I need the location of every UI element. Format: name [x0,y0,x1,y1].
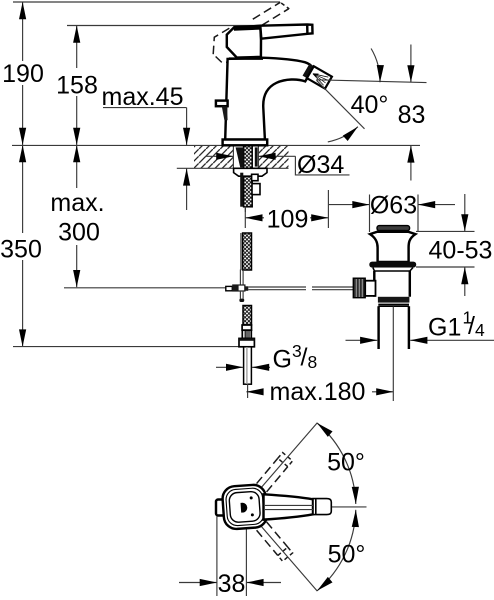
max.300 bottom reference line to hose clamp [64,287,226,289]
max.45 arrow up to counter bottom [186,168,188,210]
pop-up rod knob at rear of body [216,101,228,107]
top view dashed lever lower 50deg [257,522,293,561]
faucet handle knob [227,26,261,58]
top view radial line lower [262,527,318,592]
109 right extension line [327,190,329,228]
countertop bottom surface line [177,167,289,169]
40 deg lower arc with arrow [328,127,358,142]
clamp block white window [239,286,245,291]
rings below threaded band [378,303,409,305]
svg-text:40-53: 40-53 [429,237,493,265]
clamp block dark part [232,284,245,291]
40-53 bottom reference line [416,266,475,268]
dark bar right side of hole [255,147,258,166]
dimension 38 arrows [179,582,217,584]
clamp left nut [226,286,233,290]
38 right extension line [245,530,247,597]
mounting hole left wall [232,145,234,168]
top view centerline right [331,506,366,508]
svg-text:Ø34: Ø34 [297,151,344,179]
svg-text:/: / [301,344,308,372]
dimension O63 arrows [328,204,369,206]
dimension 83 arrows [410,45,412,83]
countertop hatched section right of hole [258,145,288,168]
drain threaded band [378,297,410,303]
50 deg lower arc with arrows [317,510,356,591]
svg-text:109: 109 [267,206,309,234]
top view lever cap [313,499,331,515]
dimension 190 vertical line with arrows [22,2,24,61]
svg-text:300: 300 [58,219,100,247]
O63 left extension line [369,195,371,233]
svg-text:Ø63: Ø63 [370,192,417,220]
svg-text:50°: 50° [328,541,366,569]
109 left extension line [244,206,246,228]
extension line: lever raised top level (190 ref) [13,1,280,3]
top view lever arm [264,494,314,519]
countertop top surface line [12,144,420,146]
svg-text:38: 38 [218,570,246,598]
G3/8 arrows [216,366,243,368]
mounting hole right wall [257,145,259,168]
top view handle logo blob [241,502,248,512]
pop-up rod knurled knob [353,278,365,298]
knob connecting cylinder [365,281,375,296]
drain rubber seal ring [369,262,416,268]
O63 right extension line [417,195,419,233]
top view arm slot lines [265,504,313,506]
dimension max.180 arrows [246,391,263,393]
top view handle outer outline [222,484,268,530]
svg-text:158: 158 [56,72,98,100]
max.45 arrow down to counter top [186,108,188,145]
svg-text:max.45: max.45 [102,83,184,111]
svg-text:4: 4 [475,320,485,340]
pop-up rod pair above clamp [239,270,241,285]
spout axis 40 deg line [317,80,365,129]
faucet body and spout outline [225,58,313,140]
drain centerline [392,307,394,402]
38 left extension line [216,517,218,597]
svg-text:G: G [273,345,292,373]
40-53 arrows [464,194,466,231]
second hose line behind [240,233,242,270]
extension line: lever rest top level (158 ref) [67,25,303,27]
handle knob dark top edge [233,25,261,31]
top view handle inner outline [229,491,261,523]
clamp bottom stem [239,292,241,299]
faucet handle dashed alternate knob outline [213,27,252,63]
drain valve body [374,271,410,297]
40 deg upper arc with arrow [371,49,380,83]
350 bottom reference line (hose end level) [13,346,247,348]
dimension 350 vertical line with arrows [22,145,24,233]
O34 label leader corner and underline [295,156,349,175]
faucet lever arm [260,25,312,39]
aerator block [307,66,332,88]
drain plug cap disc [377,226,410,231]
svg-text:/: / [468,312,475,340]
svg-text:max.: max. [50,189,104,217]
stem dark end cap [239,299,244,302]
countertop hatched section left of hole [194,145,233,168]
ferrule white band [242,325,251,330]
top view radial line upper [262,423,318,488]
40-53 top reference line [416,230,475,232]
horseshoe washer under counter [234,168,267,176]
knurled collar [242,330,251,338]
svg-text:350: 350 [0,236,42,264]
drain flange trumpet body [370,232,415,262]
linkage screw block [252,184,260,195]
shank centerline stub [244,207,246,212]
aerator joint dark band [303,64,332,89]
drain plug stem [380,230,405,232]
flexible hose upper section (mesh) [243,233,252,270]
dimension 158 vertical line with arrows [76,26,78,69]
threaded shank through counter (mesh) [244,145,253,206]
faucet base plate [223,140,268,146]
dark pop-up rod below washer [240,173,243,207]
svg-text:190: 190 [2,60,44,88]
50 deg upper arc with arrows [317,423,356,504]
connection pipe [244,347,252,384]
aerator spray lines [311,70,329,86]
faucet body top shoulder line [229,57,263,59]
svg-text:G1: G1 [428,313,461,341]
G3/8 connection nut [239,338,254,346]
mounting nut bracket [252,174,258,180]
dark pop-up duct in hole [236,147,244,167]
flexible hose lower section (mesh) [243,306,252,326]
svg-text:83: 83 [398,101,426,129]
svg-text:40°: 40° [351,91,389,119]
drain tailpipe walls [379,306,409,349]
lever arm end cap line [306,25,309,34]
max.180 left extension line [247,384,249,398]
taper below seal [373,268,413,271]
top view handle dots [250,496,253,499]
dimension max.300 vertical line with arrows [76,145,78,188]
top view dashed lever upper 50deg [257,453,293,492]
svg-text:max.180: max.180 [270,378,366,406]
spout outlet level leader line [316,80,426,83]
pop-up rod dark diagonal below rear knob [222,106,228,120]
hole diameter arrows (O34) [205,155,233,157]
clamp right nub [246,286,249,291]
dimension 109 arrows [245,217,264,219]
pop-up rod horizontal to drain (left piece) [248,286,306,288]
top view handle middle outline [225,488,264,527]
svg-text:50°: 50° [327,449,365,477]
svg-text:8: 8 [308,352,318,372]
G1 1/4 arrows at tailpipe [346,339,378,341]
top view spout tab [216,500,227,516]
faucet dashed raised lever lines [253,2,280,19]
pop-up rod horizontal to drain (right piece) [312,286,353,288]
